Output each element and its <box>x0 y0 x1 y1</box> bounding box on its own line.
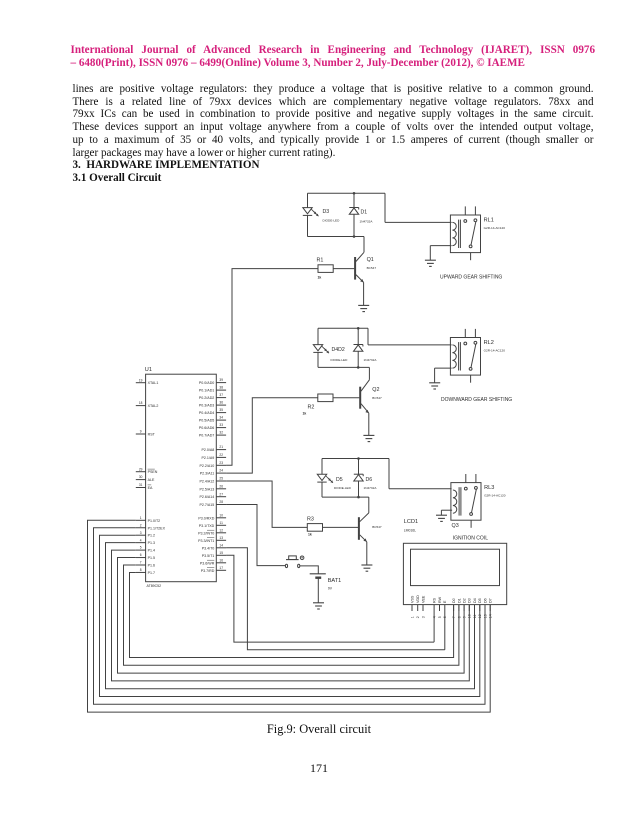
svg-text:30: 30 <box>139 475 143 479</box>
pin 6 E (LCD) <box>443 600 447 618</box>
LED D3 <box>303 208 319 217</box>
wire: net LCD D6 to P1.1 <box>94 528 486 705</box>
label UPWARD GEAR SHIFTING <box>440 275 502 281</box>
svg-text:9: 9 <box>140 430 142 434</box>
svg-text:5: 5 <box>140 546 142 550</box>
node: D2 cathode junction stage 2 <box>357 327 360 330</box>
svg-text:P0.4/AD4: P0.4/AD4 <box>199 411 214 415</box>
pin 24 P2.3/A11 (right) <box>200 469 226 476</box>
label DOWNWARD GEAR SHIFTING <box>441 397 512 403</box>
svg-text:D1: D1 <box>457 598 461 603</box>
svg-text:1N4732A: 1N4732A <box>364 486 378 490</box>
pin 26 P2.5/A13 (right) <box>200 484 227 491</box>
svg-text:BC547: BC547 <box>372 396 382 400</box>
svg-text:D0: D0 <box>452 598 456 603</box>
wire: collector drop Q2 <box>368 367 370 379</box>
svg-text:34: 34 <box>219 416 223 420</box>
svg-text:D1: D1 <box>361 210 368 216</box>
svg-text:RS: RS <box>433 597 437 603</box>
pin 15 P3.5/T1 (right) <box>202 551 226 558</box>
label LCD1 LM016L <box>404 519 418 533</box>
pin 10 P3.0/RXD (right) <box>198 513 226 520</box>
label Q3 <box>452 523 459 529</box>
pin 5 P1.4 (left) <box>136 546 155 553</box>
pin 31 EA (left) <box>136 483 153 490</box>
label R2 1k <box>303 405 315 416</box>
svg-text:P0.5/AD5: P0.5/AD5 <box>199 419 214 423</box>
pin 8 P1.7 (left) <box>136 568 155 575</box>
transistor Q2 (NPN BC547) <box>360 380 369 413</box>
svg-text:LM016L: LM016L <box>404 529 416 533</box>
svg-text:P2.1/A9: P2.1/A9 <box>202 456 215 460</box>
pin 16 P3.6/WR (right) <box>200 558 226 565</box>
pin 34 P0.5/AD5 (right) <box>199 416 226 423</box>
svg-text:Q2: Q2 <box>372 387 379 393</box>
svg-text:37: 37 <box>219 393 223 397</box>
svg-text:EA: EA <box>148 486 153 490</box>
zener diode D2 <box>354 345 363 352</box>
svg-text:31: 31 <box>139 483 143 487</box>
svg-text:P2.6/A14: P2.6/A14 <box>200 495 215 499</box>
wire: base wire R2 right to Q2 <box>333 397 359 399</box>
svg-text:D4: D4 <box>473 598 477 603</box>
svg-text:2: 2 <box>140 523 142 527</box>
wire: relay RL2 feed <box>368 328 452 345</box>
svg-text:P3.3/INT1: P3.3/INT1 <box>198 539 214 543</box>
ground under Q3 <box>361 565 372 571</box>
wire: D5 cathode to bottom rail <box>321 482 323 497</box>
svg-text:Q1: Q1 <box>367 257 374 263</box>
svg-text:P1.2: P1.2 <box>148 534 155 538</box>
wire: relay RL3 feed <box>389 459 452 489</box>
svg-text:9V: 9V <box>328 587 333 591</box>
svg-text:1k: 1k <box>318 276 322 280</box>
pin 2 P1.1/T2EX (left) <box>136 523 166 530</box>
svg-text:DIODE-LED: DIODE-LED <box>323 219 341 223</box>
svg-text:25: 25 <box>219 477 223 481</box>
pin 25 P2.4/A12 (right) <box>200 477 227 484</box>
svg-text:11: 11 <box>220 521 224 525</box>
svg-text:RL3: RL3 <box>484 485 494 491</box>
wire: collector drop Q3 <box>368 497 370 513</box>
ground under Q1 <box>358 305 369 311</box>
svg-text:P2.0/A8: P2.0/A8 <box>202 448 215 452</box>
pin 4 P1.3 (left) <box>136 538 155 545</box>
wire: net LCD D1 to P1.6 <box>124 565 459 665</box>
svg-text:6: 6 <box>140 553 142 557</box>
pin 17 P3.7/RD (right) <box>201 566 226 573</box>
LED D5 <box>317 474 333 483</box>
pin 23 P2.2/A10 (right) <box>200 461 227 468</box>
svg-text:P2.5/A13: P2.5/A13 <box>200 487 215 491</box>
pin 8 D1 (LCD) <box>457 598 461 618</box>
wire: stage-3 top rail <box>322 458 389 460</box>
svg-text:P3.7/RD: P3.7/RD <box>201 569 215 573</box>
ground under RL1 coil <box>425 260 436 266</box>
svg-text:P3.0/RXD: P3.0/RXD <box>198 516 214 520</box>
wire: D3 anode from top rail <box>307 193 309 207</box>
svg-text:36: 36 <box>219 401 223 405</box>
svg-text:D4D2: D4D2 <box>332 347 345 353</box>
LED D4 <box>313 345 329 354</box>
svg-text:P2.3/A11: P2.3/A11 <box>200 472 215 476</box>
svg-text:29: 29 <box>139 467 143 471</box>
svg-text:VEE: VEE <box>421 595 425 603</box>
svg-text:P3.2/INT0: P3.2/INT0 <box>198 531 214 535</box>
svg-text:24: 24 <box>219 469 223 473</box>
svg-text:P2.7/A15: P2.7/A15 <box>200 503 215 507</box>
wire: D6 anode to bottom rail <box>358 481 360 497</box>
label Q2 BC547 <box>372 387 382 400</box>
wire: button to battery positive <box>300 566 318 574</box>
pin 7 D0 (LCD) <box>452 598 456 618</box>
svg-text:P3.5/T1: P3.5/T1 <box>202 554 215 558</box>
label AT89C52 <box>147 584 162 588</box>
node: collector junction stage 1 <box>353 235 356 238</box>
svg-text:28: 28 <box>219 500 223 504</box>
svg-text:P1.0/T2: P1.0/T2 <box>148 519 161 523</box>
label BC547 (Q3) <box>372 525 382 529</box>
svg-text:33: 33 <box>219 423 223 427</box>
svg-text:DIODE-LED: DIODE-LED <box>331 358 349 362</box>
pin 28 P2.7/A15 (right) <box>200 500 227 507</box>
wire: D2 anode to bottom rail <box>357 351 359 367</box>
svg-text:5: 5 <box>438 616 442 618</box>
svg-text:RST: RST <box>148 433 156 437</box>
pin 11 D4 (LCD) <box>473 598 477 618</box>
wire: D4 anode from top rail <box>317 328 319 344</box>
svg-text:RW: RW <box>438 596 442 603</box>
svg-text:P0.3/AD3: P0.3/AD3 <box>199 404 214 408</box>
zener diode D1 <box>349 208 358 215</box>
label D3 <box>323 209 341 223</box>
svg-text:D5: D5 <box>336 477 343 483</box>
svg-text:4: 4 <box>140 538 142 542</box>
svg-text:1k: 1k <box>303 412 307 416</box>
pin 13 D6 (LCD) <box>483 598 487 618</box>
pin 2 VDD (LCD) <box>416 595 420 618</box>
wire: D2 from top rail <box>357 328 359 344</box>
label Q1 BC547 <box>367 257 377 270</box>
ground under BAT1 <box>313 603 324 609</box>
wire: D3 cathode to bottom rail <box>307 215 309 236</box>
pin 32 P0.7/AD7 (right) <box>199 431 226 438</box>
wire: stage-3 bottom rail <box>322 496 369 498</box>
pin 21 P2.0/A8 (right) <box>202 445 227 452</box>
svg-text:P3.6/WR: P3.6/WR <box>200 561 215 565</box>
svg-text:1: 1 <box>410 616 414 618</box>
pin 10 D3 (LCD) <box>468 598 472 618</box>
wire: RL2 coil return to ground <box>435 368 452 383</box>
svg-text:D6: D6 <box>483 598 487 603</box>
ground under Q2 <box>363 435 374 441</box>
svg-text:P1.4: P1.4 <box>148 549 155 553</box>
svg-text:14: 14 <box>219 543 223 547</box>
label IGNITION COIL <box>453 536 489 542</box>
relay RL3 (G2R-14-AC120) <box>451 474 506 528</box>
wire: net P2.3/A11 to R2 <box>226 398 318 473</box>
wire: D1 anode to bottom rail <box>353 214 355 236</box>
pin 22 P2.1/A9 (right) <box>202 453 227 460</box>
wire: stage-2 bottom rail <box>318 366 369 368</box>
label U1 <box>145 367 152 373</box>
svg-text:IGNITION COIL: IGNITION COIL <box>453 536 489 542</box>
wire: D6 from top rail <box>358 459 360 475</box>
wire: base wire R1 right to Q1 <box>333 268 354 270</box>
wire: stage-1 top rail <box>308 192 386 194</box>
svg-text:UPWARD GEAR SHIFTING: UPWARD GEAR SHIFTING <box>440 275 502 281</box>
svg-text:P1.6: P1.6 <box>148 564 155 568</box>
pin 30 ALE (left) <box>136 475 155 482</box>
label D1 <box>360 210 374 224</box>
svg-text:VSS: VSS <box>410 595 414 603</box>
pin 3 VEE (LCD) <box>421 595 425 618</box>
svg-text:22: 22 <box>219 453 223 457</box>
svg-text:AT89C52: AT89C52 <box>147 584 162 588</box>
svg-text:P0.7/AD7: P0.7/AD7 <box>199 434 214 438</box>
pin 29 PSEN (left) <box>136 467 158 474</box>
svg-text:10: 10 <box>219 513 223 517</box>
svg-text:BC547: BC547 <box>372 525 382 529</box>
svg-text:1N4732A: 1N4732A <box>364 358 378 362</box>
wire: RL3 coil return to ground <box>441 510 452 515</box>
svg-text:32: 32 <box>219 431 223 435</box>
svg-text:2: 2 <box>416 616 420 618</box>
wire: stage-1 bottom rail <box>308 236 365 238</box>
pin 12 P3.2/INT0 (right) <box>198 528 226 535</box>
svg-text:P2.4/A12: P2.4/A12 <box>200 480 215 484</box>
svg-text:3: 3 <box>421 616 425 618</box>
svg-text:38: 38 <box>219 386 223 390</box>
push button SW (start) <box>285 556 304 568</box>
svg-text:27: 27 <box>219 492 223 496</box>
wire: net P3.5/T1 to LCD RS <box>226 555 434 642</box>
svg-text:19: 19 <box>139 378 143 382</box>
wire: net P3.4/T0 to LCD E <box>226 548 445 650</box>
label R3 1k <box>307 516 314 536</box>
svg-text:23: 23 <box>219 461 223 465</box>
battery BAT1 <box>310 574 326 578</box>
wire: net P2.4/A12 to R3 <box>226 481 307 527</box>
svg-text:R2: R2 <box>308 405 315 411</box>
svg-text:1N4732A: 1N4732A <box>360 219 374 223</box>
wire: base wire R3 right to Q3 <box>323 526 359 528</box>
svg-text:18: 18 <box>139 401 143 405</box>
pin 13 P3.3/INT1 (right) <box>198 536 226 543</box>
pin 18 XTAL2 (left) <box>136 401 159 408</box>
svg-text:G2R-14-AC120: G2R-14-AC120 <box>484 348 506 352</box>
svg-text:ALE: ALE <box>148 478 155 482</box>
label D6 <box>364 477 378 490</box>
pin 38 P0.1/AD1 (right) <box>199 386 226 393</box>
pin 4 RS (LCD) <box>433 597 437 618</box>
pin 11 P3.1/TXD (right) <box>199 521 226 528</box>
wire: D4 cathode to bottom rail <box>317 352 319 367</box>
svg-text:R1: R1 <box>317 258 324 264</box>
wire: net LCD D3 to P1.4 <box>112 550 470 681</box>
svg-text:RL2: RL2 <box>484 340 494 346</box>
svg-text:DOWNWARD GEAR SHIFTING: DOWNWARD GEAR SHIFTING <box>441 397 512 403</box>
wire: net LCD D7 to P1.0 <box>88 520 491 712</box>
wire: Q3 emitter to ground <box>366 542 368 565</box>
node: D6 cathode junction stage 3 <box>357 457 360 460</box>
pin 1 VSS (LCD) <box>410 595 414 618</box>
pin 6 P1.5 (left) <box>136 553 155 560</box>
label R1 1k <box>317 258 324 280</box>
ground under RL3 coil <box>436 515 447 521</box>
label D4 D2 <box>331 347 349 362</box>
svg-text:P1.3: P1.3 <box>148 541 155 545</box>
svg-text:15: 15 <box>219 551 223 555</box>
svg-text:P0.0/AD0: P0.0/AD0 <box>199 381 214 385</box>
wire: Q1 emitter to ground <box>363 282 365 305</box>
svg-text:DIODE-LED: DIODE-LED <box>334 486 352 490</box>
svg-text:1: 1 <box>140 516 142 520</box>
svg-text:P3.1/TXD: P3.1/TXD <box>199 524 215 528</box>
wire: stage-2 top rail <box>318 327 368 329</box>
svg-text:P0.2/AD2: P0.2/AD2 <box>199 396 214 400</box>
svg-text:R3: R3 <box>307 516 314 522</box>
svg-text:BAT1: BAT1 <box>328 578 342 584</box>
svg-text:RL1: RL1 <box>484 218 494 224</box>
pin 35 P0.4/AD4 (right) <box>199 408 226 415</box>
svg-text:XTAL1: XTAL1 <box>148 381 159 385</box>
svg-text:D3: D3 <box>323 209 330 215</box>
pin 14 D7 (LCD) <box>489 598 493 618</box>
resistor R1 <box>318 265 333 273</box>
LCD LCD1 LM016L body <box>403 543 506 604</box>
label 1N4732A (D2) <box>364 358 378 362</box>
node: collector junction stage 2 <box>357 366 360 369</box>
svg-text:D5: D5 <box>478 598 482 603</box>
wire: D1 from top rail <box>353 193 355 207</box>
relay RL1 (G2R-14-AC120) <box>450 206 505 260</box>
wire: relay RL1 feed <box>385 193 452 222</box>
ground under RL2 coil <box>429 383 440 389</box>
svg-text:VDD: VDD <box>416 595 420 603</box>
pin 33 P0.6/AD6 (right) <box>199 423 226 430</box>
wire: net LCD D5 to P1.2 <box>100 535 480 696</box>
transistor Q3 (NPN BC547) <box>359 513 369 542</box>
svg-text:21: 21 <box>219 445 223 449</box>
node: collector junction stage 3 <box>357 496 360 499</box>
wire: D5 anode from top rail <box>321 459 323 475</box>
transistor Q1 (NPN BC547) <box>355 252 364 282</box>
wire: net P2.2/A10 to R1 <box>226 269 318 466</box>
resistor R2 <box>318 394 333 402</box>
svg-text:17: 17 <box>219 566 223 570</box>
svg-text:P0.6/AD6: P0.6/AD6 <box>199 426 214 430</box>
svg-text:7: 7 <box>140 561 142 565</box>
wire: RL1 coil return to ground <box>430 246 451 261</box>
svg-text:13: 13 <box>219 536 223 540</box>
wire: net LCD D4 to P1.3 <box>106 543 475 689</box>
pin 12 D5 (LCD) <box>478 598 482 618</box>
pin 37 P0.2/AD2 (right) <box>199 393 226 400</box>
pin 1 P1.0/T2 (left) <box>136 516 160 523</box>
svg-text:P3.4/T0: P3.4/T0 <box>202 546 215 550</box>
zener diode D6 <box>354 474 363 481</box>
pin 36 P0.3/AD3 (right) <box>199 401 226 408</box>
pin 7 P1.6 (left) <box>136 561 155 568</box>
svg-text:8: 8 <box>140 568 142 572</box>
op-amp U1 microcontroller AT89C52 body <box>146 374 217 582</box>
relay RL2 (G2R-14-AC120) <box>450 329 505 383</box>
svg-text:BC547: BC547 <box>367 266 377 270</box>
wire: collector drop Q1 <box>363 237 365 253</box>
pin 9 D2 (LCD) <box>463 598 467 618</box>
resistor R3 <box>307 524 322 532</box>
svg-text:PSEN: PSEN <box>148 470 158 474</box>
svg-text:P1.5: P1.5 <box>148 556 155 560</box>
svg-text:LCD1: LCD1 <box>404 519 418 525</box>
pin 27 P2.6/A14 (right) <box>200 492 227 499</box>
svg-text:E: E <box>443 600 447 603</box>
svg-text:P0.1/AD1: P0.1/AD1 <box>199 389 214 393</box>
wire: net P2.7/A15 to push button <box>226 505 285 566</box>
svg-text:12: 12 <box>219 528 223 532</box>
svg-text:P2.2/A10: P2.2/A10 <box>200 464 215 468</box>
svg-text:U1: U1 <box>145 367 152 373</box>
svg-text:D3: D3 <box>468 598 472 603</box>
wire: net LCD D2 to P1.5 <box>118 558 465 674</box>
svg-text:1k: 1k <box>308 532 312 536</box>
svg-text:16: 16 <box>219 558 223 562</box>
pin 9 RST (left) <box>136 430 156 437</box>
svg-text:D2: D2 <box>463 598 467 603</box>
svg-text:35: 35 <box>219 408 223 412</box>
svg-text:G2R-14-AC120: G2R-14-AC120 <box>484 226 506 230</box>
svg-text:P1.7: P1.7 <box>148 571 155 575</box>
label BAT1 9V <box>328 578 342 591</box>
svg-text:P1.1/T2EX: P1.1/T2EX <box>148 526 166 530</box>
svg-text:39: 39 <box>219 378 223 382</box>
svg-text:3: 3 <box>140 531 142 535</box>
node: D1 cathode junction on top rail <box>353 192 356 195</box>
pin 14 P3.4/T0 (right) <box>202 543 226 550</box>
svg-text:D6: D6 <box>366 477 373 483</box>
pin 3 P1.2 (left) <box>136 531 155 538</box>
pin 5 RW (LCD) <box>438 596 442 618</box>
pin 39 P0.0/AD0 (right) <box>199 378 226 385</box>
label D5 <box>334 477 352 490</box>
wire: battery negative to ground <box>317 578 319 603</box>
wire: Q2 emitter to ground <box>368 413 370 435</box>
svg-text:D7: D7 <box>489 598 493 603</box>
wire: net LCD D0 to P1.7 <box>130 572 454 657</box>
svg-text:XTAL2: XTAL2 <box>148 404 159 408</box>
svg-text:Q3: Q3 <box>452 523 459 529</box>
pin 19 XTAL1 (left) <box>136 378 159 385</box>
svg-text:G2R-14-AC120: G2R-14-AC120 <box>484 493 506 497</box>
svg-text:26: 26 <box>219 484 223 488</box>
